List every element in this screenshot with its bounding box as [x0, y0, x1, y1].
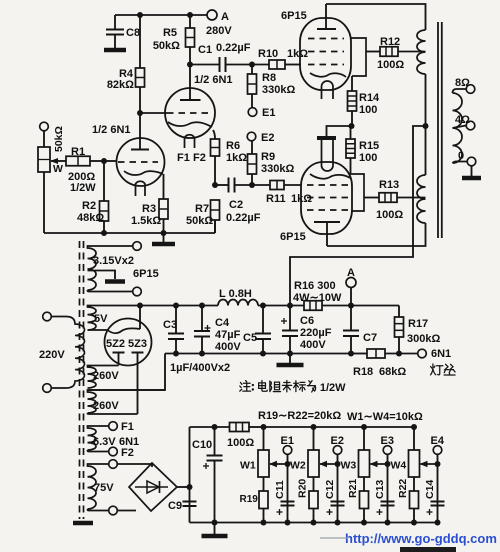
svg-text:68kΩ: 68kΩ	[379, 366, 406, 378]
label 6P15 heater	[133, 268, 159, 280]
svg-text:48kΩ: 48kΩ	[77, 212, 104, 224]
junction C5 bottom	[260, 351, 266, 357]
capacitor C13	[374, 480, 395, 515]
wire B+ center tap down to filter	[290, 126, 426, 306]
label E1 top	[262, 107, 275, 119]
beam plate bracket V2	[351, 38, 366, 76]
svg-text:A: A	[347, 267, 355, 279]
terminal 3.15V top	[133, 242, 142, 251]
svg-text:1/2 6N1: 1/2 6N1	[92, 124, 131, 136]
resistor R12	[366, 36, 426, 71]
resistor R22	[410, 491, 419, 523]
terminal E1 top	[248, 108, 257, 117]
svg-text:C3: C3	[163, 319, 177, 331]
terminal E2 top	[247, 132, 256, 141]
svg-text:82kΩ: 82kΩ	[107, 79, 134, 91]
svg-text:W1: W1	[240, 460, 256, 472]
ground transformer core	[73, 521, 93, 526]
label 4 ohm	[455, 114, 470, 126]
svg-text:C5: C5	[243, 332, 257, 344]
svg-text:R5: R5	[163, 27, 177, 39]
svg-text:L 0.8H: L 0.8H	[219, 288, 252, 300]
svg-text:R18: R18	[353, 366, 373, 378]
svg-text:0.22µF: 0.22µF	[226, 212, 261, 224]
label 5Z2 5Z3	[106, 338, 147, 350]
junction C1/R8/R10	[249, 62, 255, 68]
label 260V lower	[93, 400, 119, 412]
junction wiper W3/E3	[385, 461, 391, 467]
svg-text:5Z2 5Z3: 5Z2 5Z3	[106, 338, 147, 350]
capacitor C1	[190, 42, 252, 72]
junction W4 top rail	[411, 424, 417, 430]
label E2 top	[261, 132, 274, 144]
terminal 0 ohm	[467, 157, 476, 166]
svg-text:W1∼W4=10kΩ: W1∼W4=10kΩ	[347, 411, 423, 423]
wiper arrow W2	[319, 461, 338, 467]
label E2	[331, 435, 344, 447]
junction C3 top	[173, 303, 179, 309]
terminal E4	[433, 446, 442, 455]
wire A terminal stem	[350, 288, 352, 306]
label 220V	[39, 349, 65, 361]
resistor R20	[309, 491, 318, 523]
label 260V upper	[93, 370, 119, 382]
svg-text:F2: F2	[193, 152, 206, 164]
svg-text:C9: C9	[168, 500, 182, 512]
wiper arrow of volume pot	[50, 158, 66, 164]
beam plate bracket V3	[350, 174, 364, 211]
junction C5 top	[260, 303, 266, 309]
wire R7 to ground rail	[214, 220, 216, 233]
svg-text:3.15Vx2: 3.15Vx2	[93, 255, 134, 267]
svg-text:R9: R9	[261, 151, 275, 163]
junction W3 top rail	[361, 424, 367, 430]
svg-text:400V: 400V	[215, 341, 241, 353]
capacitor C8	[106, 15, 140, 47]
svg-text:50kΩ: 50kΩ	[186, 215, 213, 227]
terminal 8 ohm	[466, 85, 475, 94]
output transformer secondary winding	[453, 89, 468, 163]
junction C10 top	[212, 424, 218, 430]
svg-text:1kΩ: 1kΩ	[287, 48, 308, 60]
resistor R6	[211, 139, 248, 185]
junction wiper W2/E2	[335, 461, 341, 467]
scan artifact bar	[400, 547, 456, 552]
terminal E3	[383, 446, 392, 455]
label R19	[240, 494, 259, 505]
wire top B+ rail	[115, 14, 207, 16]
svg-text:C11: C11	[274, 480, 286, 499]
potentiometer W2	[290, 427, 319, 491]
svg-text:W: W	[53, 163, 63, 175]
capacitor C11	[274, 480, 295, 515]
wire filter rail left drop to 260V tap	[88, 354, 165, 391]
svg-text:5V: 5V	[94, 313, 108, 325]
resistor R17	[395, 306, 441, 354]
wire cathode V1b to R6	[213, 130, 215, 139]
node plate V1b / C1	[187, 62, 193, 68]
resistor 100ohm bias	[227, 423, 264, 450]
svg-text:F2: F2	[121, 447, 134, 459]
capacitor C7	[343, 306, 377, 354]
wiper arrow W1	[269, 461, 288, 467]
wire bias bottom rail	[190, 522, 438, 524]
capacitor C2	[215, 178, 261, 225]
junction bottom rail x387.5	[385, 520, 391, 526]
resistor R9	[248, 141, 295, 185]
resistor R4	[107, 15, 145, 113]
svg-text:100Ω: 100Ω	[376, 209, 403, 221]
resistor R1	[66, 146, 104, 194]
svg-text:E4: E4	[431, 435, 445, 447]
wiper arrow W4	[420, 461, 438, 467]
junction R14/R15 screen node	[349, 123, 355, 129]
junction C7 bottom	[348, 351, 354, 357]
svg-text:C1: C1	[198, 44, 212, 56]
label heater dengsi	[431, 364, 456, 375]
svg-text:280V: 280V	[206, 25, 232, 37]
triode V1b 1/2 6N1 second	[140, 65, 215, 149]
ground below C8	[104, 47, 126, 50]
svg-text:R14: R14	[359, 92, 380, 104]
label 6N1 heater winding	[119, 436, 139, 448]
resistor R10	[252, 48, 308, 69]
junction bottom rail x214.5	[212, 520, 218, 526]
svg-text:1µF/400Vx2: 1µF/400Vx2	[170, 362, 230, 374]
wire E3 stem	[387, 454, 389, 522]
svg-text:47µF: 47µF	[215, 329, 241, 341]
svg-text:C14: C14	[424, 480, 436, 499]
svg-text:6P15: 6P15	[281, 10, 307, 22]
junction C3 bottom	[173, 351, 179, 357]
svg-text:http://www.go-gddq.com: http://www.go-gddq.com	[345, 531, 497, 546]
svg-text:75V: 75V	[94, 482, 114, 494]
svg-text:1/2 6N1: 1/2 6N1	[194, 74, 233, 86]
label 6N1 heater	[431, 348, 451, 360]
junction C6 bottom	[287, 351, 293, 357]
potentiometer W3	[341, 427, 370, 491]
terminal 6N1 heater	[418, 349, 427, 358]
resistor R11	[252, 181, 312, 206]
svg-text:C6: C6	[300, 315, 314, 327]
svg-text:R1: R1	[71, 146, 85, 158]
svg-text:6P15: 6P15	[280, 231, 306, 243]
label 8 ohm	[455, 77, 470, 89]
resistor R21	[360, 491, 369, 523]
svg-text:1.5kΩ: 1.5kΩ	[131, 215, 161, 227]
winding 3.15Vx2	[88, 246, 133, 292]
center tap 3.15V to ground	[88, 271, 126, 282]
junction C4 top	[199, 303, 205, 309]
capacitor C6	[281, 306, 332, 354]
junction A terminal filter rail	[348, 303, 354, 309]
label 0 ohm	[458, 150, 464, 162]
screen node bar to V3 top	[317, 126, 352, 138]
wire plate V2 to primary top	[326, 4, 426, 30]
terminal 75V bottom	[109, 506, 118, 515]
wire filter rail to R17	[351, 305, 399, 307]
output transformer primary winding	[417, 30, 426, 223]
svg-text:F1: F1	[121, 421, 134, 433]
capacitor C3	[163, 306, 184, 354]
resistor R19	[259, 491, 268, 523]
svg-text:100: 100	[359, 152, 377, 164]
label F1	[121, 421, 134, 433]
output transformer core	[438, 22, 442, 238]
svg-text:E3: E3	[381, 435, 394, 447]
svg-text:220µF: 220µF	[300, 327, 332, 339]
label R19-R22	[258, 410, 341, 422]
wire ground rail left	[44, 232, 215, 234]
label 75V	[94, 482, 114, 494]
wire E4 stem	[437, 454, 439, 522]
svg-text:0.22µF: 0.22µF	[216, 42, 251, 54]
winding 6.3V	[88, 426, 109, 452]
winding 260V lower	[88, 390, 166, 414]
junction wiper W1/E1	[285, 461, 291, 467]
label 6P15 top	[281, 10, 307, 22]
resistor R5	[153, 15, 195, 65]
junction bottom rail x287.5	[285, 520, 291, 526]
capacitor C10	[192, 427, 223, 523]
svg-text:E2: E2	[261, 132, 274, 144]
resistor R15	[346, 126, 379, 174]
label F2	[121, 447, 134, 459]
junction R16/C6 top	[287, 303, 293, 309]
junction bottom rail x263.5	[261, 520, 267, 526]
svg-text:E1: E1	[262, 107, 275, 119]
node grid V1b / plate V1a	[137, 110, 143, 116]
label note 1/2W	[320, 382, 346, 394]
svg-text:6P15: 6P15	[133, 268, 159, 280]
svg-text:4W∼10W: 4W∼10W	[293, 292, 342, 304]
label A	[221, 11, 229, 23]
label W1-W4	[347, 411, 423, 423]
label 1/2 6N1 V1a	[92, 124, 131, 136]
resistor R7	[186, 200, 220, 233]
wiper arrow W3	[370, 461, 388, 467]
svg-text:R16 300: R16 300	[294, 280, 336, 292]
power transformer 220V primary winding	[52, 317, 85, 389]
capacitor C4	[194, 306, 241, 354]
junction C4 bottom	[199, 351, 205, 357]
potentiometer 50k volume	[38, 126, 65, 233]
junction bottom rail x437.5	[435, 520, 441, 526]
resistor R2	[77, 161, 109, 233]
junction R3 ground rail	[161, 230, 167, 236]
label 1uF 400Vx2	[170, 362, 230, 374]
svg-text:R7: R7	[195, 203, 209, 215]
svg-text:R22: R22	[397, 479, 409, 498]
svg-text:W3: W3	[341, 460, 357, 472]
label R21	[347, 479, 359, 498]
svg-text:C7: C7	[363, 332, 377, 344]
junction W1 top rail	[261, 424, 267, 430]
svg-text:C4: C4	[215, 317, 230, 329]
svg-text:W4: W4	[391, 460, 407, 472]
label R20	[297, 479, 309, 498]
label 280V	[206, 25, 232, 37]
svg-text:50kΩ: 50kΩ	[53, 126, 65, 152]
rectifier tube 5Z2/5Z3	[88, 306, 152, 415]
winding 5V	[88, 306, 141, 331]
potentiometer W1	[240, 427, 269, 491]
terminal 3.15V bottom	[133, 287, 142, 296]
svg-text:C10: C10	[192, 439, 212, 451]
resistor R3	[131, 199, 168, 233]
resistor R8	[248, 65, 296, 108]
label 1/2 6N1 V1b	[194, 74, 233, 86]
svg-text:220V: 220V	[39, 349, 65, 361]
wire filter ground rail	[165, 353, 351, 355]
label 5V	[94, 313, 108, 325]
wire bridge output riser	[189, 427, 191, 523]
junction C2/R9/R11	[249, 182, 255, 188]
triode V1a 1/2 6N1 input	[117, 113, 165, 196]
svg-text:R20: R20	[297, 479, 309, 498]
junction W2 top rail	[311, 424, 317, 430]
svg-text:100: 100	[359, 104, 377, 116]
junction bottom rail x414	[411, 520, 417, 526]
svg-text:50kΩ: 50kΩ	[153, 40, 180, 52]
wire bias rail to W4	[264, 426, 415, 428]
wire R1 junction to grid V1a	[104, 160, 117, 162]
svg-text:R11: R11	[266, 193, 286, 205]
pentode V3 6P15 bottom	[301, 140, 352, 246]
junction bottom rail x337.5	[335, 520, 341, 526]
wire bias top rail	[190, 426, 230, 428]
terminal F1	[109, 422, 118, 431]
svg-text:E1: E1	[281, 435, 294, 447]
junction R5 rail	[187, 12, 193, 18]
ground at R3	[152, 233, 175, 244]
svg-text:400V: 400V	[300, 339, 326, 351]
label 3.15Vx2	[93, 255, 134, 267]
terminal E1	[283, 446, 292, 455]
junction R2 ground rail	[101, 230, 107, 236]
junction grid V1a / R2	[101, 158, 107, 164]
winding 75V	[88, 464, 109, 511]
label A filter	[347, 267, 355, 279]
junction 5V rectifier output	[137, 303, 143, 309]
svg-text:R6: R6	[226, 140, 240, 152]
label F1 pin	[177, 152, 190, 164]
terminal F2	[109, 447, 118, 456]
power transformer core	[80, 241, 84, 519]
svg-text:330kΩ: 330kΩ	[261, 163, 294, 175]
svg-text:R15: R15	[359, 140, 379, 152]
ground bias rail	[202, 523, 228, 537]
svg-text:8Ω: 8Ω	[455, 77, 470, 89]
svg-text:R12: R12	[380, 36, 400, 48]
potentiometer W4	[391, 427, 420, 491]
junction wiper W4/E4	[435, 461, 441, 467]
svg-text:A: A	[221, 11, 229, 23]
svg-text:6N1: 6N1	[431, 348, 451, 360]
svg-text:1kΩ: 1kΩ	[226, 152, 247, 164]
junction R6/R7/C2	[212, 182, 218, 188]
terminal 220V top	[43, 312, 52, 321]
svg-text:1/2W: 1/2W	[70, 182, 96, 194]
terminal E2	[333, 446, 342, 455]
svg-text:300kΩ: 300kΩ	[407, 333, 440, 345]
resistor R18	[351, 349, 418, 378]
svg-text:R17: R17	[408, 318, 428, 330]
svg-text:0: 0	[458, 150, 464, 162]
svg-text:C2: C2	[229, 199, 243, 211]
resistor R14	[348, 76, 381, 126]
wire plate V3 to primary bottom	[327, 223, 426, 246]
junction bridge output	[187, 484, 193, 490]
junction R17 bottom	[396, 351, 402, 357]
svg-text:330kΩ: 330kΩ	[262, 84, 295, 96]
svg-text:R19∼R22=20kΩ: R19∼R22=20kΩ	[258, 410, 341, 422]
junction primary center tap B+	[423, 123, 429, 129]
winding 260V upper	[88, 366, 119, 389]
label 6.3V	[93, 436, 116, 448]
svg-text:100Ω: 100Ω	[227, 437, 254, 449]
wire E1 stem	[287, 454, 289, 522]
choke L 0.8H	[218, 288, 258, 306]
label F2 pin	[193, 152, 206, 164]
ground secondary 0 tap	[462, 166, 481, 178]
junction C8/R4 rail	[137, 12, 143, 18]
terminal A 280V	[207, 10, 217, 20]
svg-text:C13: C13	[374, 480, 386, 499]
label note resistors 1/2W	[240, 380, 316, 392]
svg-text:4Ω: 4Ω	[455, 114, 470, 126]
resistor R16	[293, 280, 351, 310]
junction bottom rail x313.5	[311, 520, 317, 526]
capacitor C12	[324, 480, 345, 515]
pentode V2 6P15 top	[300, 4, 351, 99]
terminal 220V bottom	[43, 384, 52, 393]
capacitor C14	[424, 480, 445, 515]
wire E2 stem	[337, 454, 339, 522]
svg-text:W2: W2	[290, 460, 306, 472]
svg-text:260V: 260V	[93, 400, 119, 412]
svg-text:R10: R10	[258, 48, 278, 60]
bridge rectifier	[118, 463, 190, 511]
svg-text:100Ω: 100Ω	[377, 59, 404, 71]
svg-text:C8: C8	[126, 27, 140, 39]
wire cathode V1a to R3	[163, 174, 165, 199]
label E4	[431, 435, 445, 447]
svg-text:R3: R3	[142, 203, 156, 215]
wire filter rail L to R16	[258, 305, 304, 307]
svg-text:R13: R13	[379, 179, 399, 191]
label E1	[281, 435, 294, 447]
label E3	[381, 435, 394, 447]
capacitor C5	[243, 306, 271, 354]
terminal input	[40, 122, 49, 131]
svg-text:F1: F1	[177, 152, 190, 164]
terminal 4 ohm	[466, 121, 475, 130]
svg-text:E2: E2	[331, 435, 344, 447]
svg-text:C12: C12	[324, 480, 336, 499]
watermark text	[320, 531, 497, 546]
svg-text:R21: R21	[347, 479, 359, 498]
svg-text:1/2W: 1/2W	[320, 382, 346, 394]
svg-text:R2: R2	[82, 200, 96, 212]
svg-text:6.3V: 6.3V	[93, 436, 116, 448]
terminal 75V top	[109, 460, 118, 469]
svg-text:260V: 260V	[93, 370, 119, 382]
label R22	[397, 479, 409, 498]
terminal A filter	[346, 278, 356, 288]
svg-text:R8: R8	[262, 72, 276, 84]
capacitor C9	[168, 500, 197, 512]
